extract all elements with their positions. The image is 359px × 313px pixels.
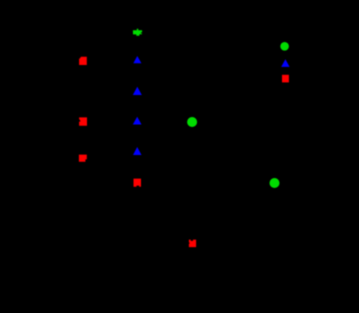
legend marker: blue triangle xyxy=(281,59,289,67)
node G3: green circle xyxy=(270,178,280,188)
node B1: blue triangle xyxy=(133,56,141,63)
node B4: blue triangle xyxy=(133,147,142,155)
node G2: green circle xyxy=(187,117,197,127)
node B2: blue triangle xyxy=(133,87,142,95)
node R2: red square xyxy=(79,117,87,125)
node R4: red square xyxy=(134,179,142,187)
node R3: red square xyxy=(79,155,87,162)
node B3: blue triangle xyxy=(133,117,142,125)
node G1: green circle (partially occluded blob) xyxy=(133,29,142,36)
legend marker: red square xyxy=(282,75,289,83)
node R1: red square xyxy=(79,57,87,65)
legend marker: green circle xyxy=(280,42,289,51)
node R5: red square xyxy=(189,240,196,248)
